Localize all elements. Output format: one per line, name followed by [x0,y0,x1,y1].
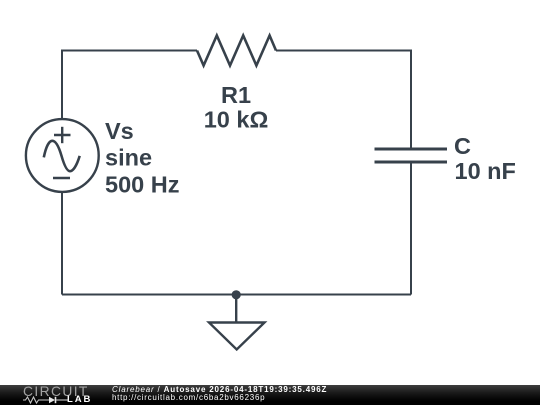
wire bottom segment [62,294,411,296]
footer credit line [112,385,327,394]
svg-text:C: C [454,133,471,159]
ground [209,295,265,350]
footer url line [112,393,265,402]
node junction dot [232,290,241,299]
logo CIRCUIT [23,385,89,398]
svg-text:500 Hz: 500 Hz [105,171,179,197]
wire top-right segment [276,51,411,150]
capacitor C [375,149,448,162]
wire right-bottom segment [410,162,412,295]
svg-text:R1: R1 [221,82,251,108]
voltage source Vs [26,119,99,192]
svg-text:10 kΩ: 10 kΩ [204,107,269,133]
logo LAB [67,396,92,404]
logo zigzag diode [23,396,69,405]
footer bar [0,385,540,405]
resistor R1 [197,36,276,66]
svg-text:10 nF: 10 nF [455,158,516,184]
svg-text:sine: sine [105,145,152,171]
svg-text:Vs: Vs [105,118,134,144]
wire top-left segment [62,51,197,120]
wire left-bottom segment [61,192,63,295]
